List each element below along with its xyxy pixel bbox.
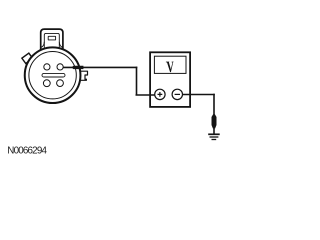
pin 3 (bottom-left) <box>43 80 50 87</box>
- sign <box>175 93 180 95</box>
wire to meter (vertical drop) <box>136 67 138 95</box>
keyway bar <box>42 73 65 77</box>
- terminal <box>172 89 182 99</box>
ground symbol bar 2 <box>210 136 219 138</box>
connector body inner circle <box>29 51 76 98</box>
latch nub rect <box>48 36 55 40</box>
cable boot <box>212 114 217 128</box>
latch tower left flare <box>41 42 44 48</box>
ground symbol bar 1 <box>208 133 220 135</box>
svg-text:N0066294: N0066294 <box>7 145 47 156</box>
connector top latch tower outer <box>41 29 63 50</box>
right side lock tab <box>81 71 88 80</box>
ground drop wire <box>213 94 215 135</box>
+ sign <box>158 92 163 97</box>
wire into + terminal <box>136 94 156 96</box>
V label <box>166 62 174 73</box>
pin 2 (top-right, probed) <box>57 64 63 70</box>
+ terminal <box>155 89 165 99</box>
voltmeter body U1 <box>150 52 190 107</box>
connector top latch tower inner <box>44 33 59 48</box>
latch tower right flare <box>59 42 62 48</box>
probe arrowhead <box>72 66 84 69</box>
ground symbol bar 3 <box>212 139 217 141</box>
wire from pin 2 to meter (horizontal) <box>64 66 138 68</box>
pin 1 (top-left) <box>44 64 50 70</box>
upper-left index tab <box>22 53 33 63</box>
connector body outer circle <box>25 47 81 103</box>
wire from - terminal (horizontal) <box>183 94 215 96</box>
voltmeter display window <box>154 56 186 73</box>
pin 4 (bottom-right) <box>57 80 64 87</box>
